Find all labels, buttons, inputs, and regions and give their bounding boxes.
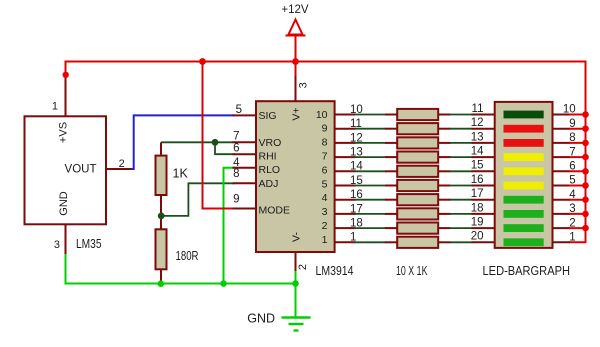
- svg-text:2: 2: [119, 158, 125, 170]
- junction V- / ground bus: [292, 280, 299, 287]
- junction anode bus row 10: [582, 111, 589, 118]
- resistor pack element 4 body: [397, 152, 438, 163]
- svg-text:19: 19: [471, 217, 484, 229]
- wire bus to pin 3: [295, 62, 297, 77]
- resistor pack element 3 body: [397, 137, 438, 148]
- svg-text:1: 1: [569, 232, 575, 244]
- LED-bargraph anode pin 5 stub: [553, 185, 571, 187]
- svg-text:9: 9: [322, 123, 328, 135]
- svg-text:5: 5: [236, 104, 242, 116]
- svg-text:+VS: +VS: [58, 122, 70, 143]
- wire bargraph pin 4 to anode bus: [569, 199, 586, 201]
- svg-text:1: 1: [52, 101, 58, 113]
- LED-bargraph anode pin 9 stub: [553, 128, 571, 130]
- LED-bargraph cathode pin 14 stub: [472, 156, 495, 158]
- resistor 180R bottom lead: [160, 269, 162, 283]
- node divider junction (1K/180R/ADJ): [158, 213, 165, 220]
- svg-text:GND: GND: [247, 312, 275, 326]
- svg-text:MODE: MODE: [259, 205, 291, 217]
- resistor R1 1K body: [156, 156, 167, 195]
- LED-bargraph anode pin 2 stub: [553, 227, 571, 229]
- LM3914 output pin 12 stub: [335, 142, 356, 144]
- wire GND pin3 to ground bus (green): [66, 255, 161, 284]
- resistor pack element 1 left lead: [385, 114, 397, 116]
- wire junction to RHI: [215, 142, 234, 154]
- wire ground bus to GND symbol: [295, 284, 297, 318]
- LED bar 8: [504, 210, 544, 218]
- resistor pack element 3 right lead: [438, 142, 450, 144]
- LED bar 6: [504, 182, 544, 190]
- junction anode bus row 4: [582, 196, 589, 203]
- svg-text:14: 14: [471, 146, 484, 158]
- resistor pack element 10 body: [397, 237, 438, 248]
- resistor pack element 9 body: [397, 223, 438, 234]
- svg-text:10 X 1K: 10 X 1K: [396, 264, 428, 278]
- resistor R2 180R body: [156, 229, 167, 269]
- LM3914 output pin 1 stub: [335, 241, 356, 243]
- resistor 1K bottom lead: [160, 195, 162, 216]
- wire bargraph pin 9 to anode bus: [569, 128, 586, 130]
- LED bar 10: [504, 238, 544, 246]
- LED-bargraph anode pin 3 stub: [553, 213, 571, 215]
- LED-bargraph cathode pin 20 stub: [472, 241, 495, 243]
- LM3914 output pin 17 stub: [335, 213, 356, 215]
- resistor pack element 5 right lead: [438, 170, 450, 172]
- wire MODE to +12V bus (red): [203, 63, 235, 209]
- svg-text:RHI: RHI: [259, 150, 277, 162]
- resistor pack element 7 right lead: [438, 199, 450, 201]
- LED-bargraph cathode pin 17 stub: [472, 199, 495, 201]
- LED bar 7: [504, 196, 544, 204]
- resistor pack element 9 left lead: [385, 227, 397, 229]
- wire ADJ to divider node: [162, 183, 234, 216]
- svg-text:1K: 1K: [173, 167, 189, 181]
- LM3914 output pin 11 stub: [335, 128, 356, 130]
- resistor pack element 7 body: [397, 194, 438, 205]
- LM3914 output pin 15 stub: [335, 185, 356, 187]
- svg-text:2: 2: [297, 264, 309, 270]
- LED bar 3: [504, 139, 544, 147]
- LED-bargraph anode pin 6 stub: [553, 170, 571, 172]
- wire L8 output to resistor 3: [355, 142, 387, 144]
- wire resistor 1 to LED 1: [450, 114, 473, 116]
- svg-text:RLO: RLO: [259, 164, 281, 176]
- wire L2 output to resistor 9: [355, 227, 387, 229]
- ground bus (green): [159, 283, 296, 285]
- LM3914 pin 8 stub (ADJ): [233, 182, 257, 184]
- wire bargraph pin 5 to anode bus: [569, 185, 586, 187]
- resistor pack element 6 left lead: [385, 185, 397, 187]
- svg-text:1: 1: [322, 234, 328, 246]
- junction anode bus row 7: [582, 154, 589, 161]
- resistor pack element 9 right lead: [438, 227, 450, 229]
- junction bus / MODE branch: [199, 58, 206, 65]
- LM3914 output pin 10 stub: [335, 114, 356, 116]
- svg-text:17: 17: [471, 188, 484, 200]
- svg-text:VOUT: VOUT: [65, 164, 97, 176]
- LED bar 5: [504, 167, 544, 175]
- svg-text:ADJ: ADJ: [259, 178, 279, 190]
- LM35 body: [25, 116, 107, 224]
- LED-bargraph anode pin 7 stub: [553, 156, 571, 158]
- LED-bargraph anode pin 8 stub: [553, 142, 571, 144]
- svg-text:VRO: VRO: [259, 137, 282, 149]
- junction anode bus row 3: [582, 211, 589, 218]
- LM3914 pin 2 stub (V-): [295, 252, 297, 272]
- wire resistor 7 to LED 7: [450, 199, 473, 201]
- resistor pack element 8 body: [397, 208, 438, 219]
- resistor pack element 4 left lead: [385, 156, 397, 158]
- svg-text:3: 3: [54, 239, 60, 251]
- wire bargraph pin 6 to anode bus: [569, 170, 586, 172]
- LM3914 output pin 14 stub: [335, 170, 356, 172]
- wire L5 output to resistor 6: [355, 185, 387, 187]
- wire bargraph pin 3 to anode bus: [569, 213, 586, 215]
- LED-bargraph cathode pin 12 stub: [472, 128, 495, 130]
- LED bar 1: [504, 111, 544, 119]
- wire L10 output to resistor 1: [355, 114, 387, 116]
- wire +12V top bus: [66, 61, 586, 63]
- junction anode bus row 9: [582, 125, 589, 132]
- junction anode bus row 6: [582, 168, 589, 175]
- LM3914 output pin 13 stub: [335, 156, 356, 158]
- wire bus right drop (LED anode bus): [570, 62, 586, 243]
- power symbol +12V (arrow): [295, 36, 297, 62]
- LED-bargraph anode pin 10 stub: [553, 114, 571, 116]
- svg-text:LM3914: LM3914: [316, 264, 354, 278]
- LED-bargraph cathode pin 16 stub: [472, 185, 495, 187]
- svg-text:13: 13: [471, 131, 484, 143]
- resistor pack element 3 left lead: [385, 142, 397, 144]
- junction 180R / ground bus: [158, 280, 165, 287]
- wire L3 output to resistor 8: [355, 213, 387, 215]
- junction anode bus row 2: [582, 225, 589, 232]
- wire VOUT to SIG (blue): [132, 115, 234, 169]
- svg-text:7: 7: [233, 130, 239, 142]
- resistor pack element 6 body: [397, 180, 438, 191]
- junction VRO/RHI: [212, 139, 219, 146]
- LED-bargraph body: [495, 102, 553, 248]
- wire bargraph pin 7 to anode bus: [569, 156, 586, 158]
- svg-text:8: 8: [233, 168, 239, 180]
- resistor pack element 2 right lead: [438, 128, 450, 130]
- svg-text:V-: V-: [291, 232, 303, 242]
- LM35 pin 3 stub: [65, 224, 67, 256]
- resistor pack element 7 left lead: [385, 199, 397, 201]
- junction dot on LM35 pin1 wire: [62, 72, 68, 78]
- svg-text:20: 20: [471, 231, 484, 243]
- svg-text:5: 5: [322, 178, 328, 190]
- junction bus / +12V & V+ branch: [292, 58, 299, 65]
- resistor pack element 8 right lead: [438, 213, 450, 215]
- wire bargraph pin 10 to anode bus: [569, 114, 586, 116]
- svg-text:11: 11: [472, 103, 484, 115]
- wire bargraph pin 2 to anode bus: [569, 227, 586, 229]
- LED bar 9: [504, 224, 544, 232]
- svg-text:7: 7: [322, 151, 328, 163]
- svg-text:16: 16: [471, 174, 484, 186]
- svg-text:GND: GND: [58, 191, 70, 216]
- resistor pack element 6 right lead: [438, 185, 450, 187]
- wire L6 output to resistor 5: [355, 170, 387, 172]
- svg-text:15: 15: [471, 160, 484, 172]
- svg-text:18: 18: [471, 202, 484, 214]
- wire L9 output to resistor 2: [355, 128, 387, 130]
- resistor pack element 1 right lead: [438, 114, 450, 116]
- wire L4 output to resistor 7: [355, 199, 387, 201]
- LED-bargraph anode pin 4 stub: [553, 199, 571, 201]
- wire bargraph pin 8 to anode bus: [569, 142, 586, 144]
- LM3914 output pin 18 stub: [335, 227, 356, 229]
- svg-text:6: 6: [233, 143, 239, 155]
- svg-text:9: 9: [233, 194, 239, 206]
- svg-text:+12V: +12V: [281, 4, 309, 16]
- wire resistor 10 to LED 10: [450, 241, 473, 243]
- resistor 180R top lead: [160, 216, 162, 229]
- LED-bargraph cathode pin 13 stub: [472, 142, 495, 144]
- resistor pack element 4 right lead: [438, 156, 450, 158]
- ground symbol: [282, 316, 311, 318]
- svg-text:LED-BARGRAPH: LED-BARGRAPH: [483, 264, 571, 278]
- op-amp U1 LM3914 body: [256, 101, 335, 252]
- svg-text:V+: V+: [291, 107, 303, 120]
- LM3914 pin 5 stub (SIG): [233, 114, 257, 116]
- LED-bargraph anode pin 1 stub: [553, 241, 571, 243]
- resistor pack element 5 left lead: [385, 170, 397, 172]
- wire resistor 4 to LED 4: [450, 156, 473, 158]
- svg-text:8: 8: [322, 137, 328, 149]
- svg-text:2: 2: [322, 220, 328, 232]
- LM3914 output pin 16 stub: [335, 199, 356, 201]
- LED bar 4: [504, 153, 544, 161]
- junction RLO / ground bus: [220, 280, 227, 287]
- svg-text:4: 4: [322, 192, 328, 204]
- wire resistor 5 to LED 5: [450, 170, 473, 172]
- svg-text:12: 12: [471, 117, 484, 129]
- LM35 pin 2 stub: [106, 168, 132, 170]
- svg-text:3: 3: [297, 82, 309, 88]
- svg-text:6: 6: [322, 164, 328, 176]
- resistor pack element 5 body: [397, 166, 438, 177]
- svg-text:3: 3: [322, 206, 328, 218]
- resistor pack element 2 body: [397, 123, 438, 134]
- LED bar 2: [504, 125, 544, 133]
- wire resistor 8 to LED 8: [450, 213, 473, 215]
- wire L1 output to resistor 10: [355, 241, 387, 243]
- LM3914 pin 6 stub (RHI): [233, 153, 257, 155]
- wire resistor 6 to LED 6: [450, 185, 473, 187]
- resistor pack element 10 left lead: [385, 241, 397, 243]
- resistor pack element 10 right lead: [438, 241, 450, 243]
- junction anode bus row 5: [582, 182, 589, 189]
- wire bus left drop to LM35 pin 1: [65, 61, 67, 80]
- LED-bargraph cathode pin 11 stub: [472, 114, 495, 116]
- wire RLO to ground bus (green): [224, 168, 235, 284]
- svg-text:SIG: SIG: [259, 110, 277, 122]
- svg-text:10: 10: [316, 109, 328, 121]
- LED-bargraph cathode pin 15 stub: [472, 170, 495, 172]
- resistor 1K top lead: [160, 142, 162, 155]
- svg-text:LM35: LM35: [76, 237, 102, 251]
- LM3914 pin 7 stub (VRO): [233, 141, 257, 143]
- resistor pack element 8 left lead: [385, 213, 397, 215]
- wire resistor 9 to LED 9: [450, 227, 473, 229]
- resistor pack element 2 left lead: [385, 128, 397, 130]
- svg-text:180R: 180R: [176, 249, 199, 263]
- junction anode bus row 8: [582, 140, 589, 147]
- LED-bargraph cathode pin 19 stub: [472, 227, 495, 229]
- wire L7 output to resistor 4: [355, 156, 387, 158]
- wire resistor 3 to LED 3: [450, 142, 473, 144]
- LM3914 pin 9 stub (MODE): [233, 208, 257, 210]
- wire pin 2 to ground bus (green): [295, 271, 297, 284]
- resistor pack element 1 body: [397, 109, 438, 120]
- wire 1K top to VRO (dark green): [161, 141, 234, 143]
- LM3914 pin 4 stub (RLO): [233, 167, 257, 169]
- LM3914 pin 3 stub (V+): [295, 75, 297, 101]
- LM35 pin 1 stub: [65, 78, 67, 116]
- LED-bargraph cathode pin 18 stub: [472, 213, 495, 215]
- wire resistor 2 to LED 2: [450, 128, 473, 130]
